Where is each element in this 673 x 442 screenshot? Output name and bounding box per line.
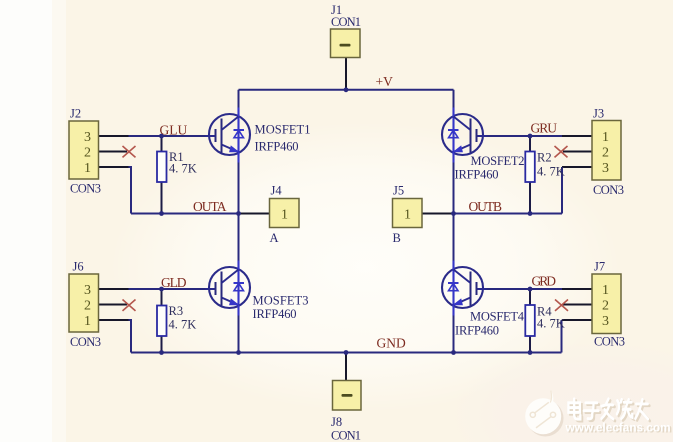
junction R2/OUTB: [528, 211, 533, 216]
connector J8 box: [333, 381, 362, 411]
transistor MOSFET4: [442, 261, 487, 316]
junction R1/OUTA: [159, 211, 164, 216]
svg-text:2: 2: [602, 146, 609, 161]
junction node GLD: [159, 287, 164, 292]
junction node GRD: [528, 287, 533, 292]
svg-text:1: 1: [602, 283, 609, 298]
pin J7-3: [562, 319, 592, 321]
svg-text:J8: J8: [331, 415, 342, 429]
svg-text:2: 2: [84, 146, 91, 161]
pin J7-2: [563, 304, 592, 306]
pin J3-2: [563, 151, 592, 153]
svg-text:CON3: CON3: [70, 335, 101, 349]
pin J6-1: [99, 319, 129, 321]
pin J5-1: [422, 213, 453, 215]
svg-text:GND: GND: [377, 336, 406, 351]
svg-text:3: 3: [602, 314, 609, 329]
pin J3-1: [562, 135, 592, 137]
connector J1 box: [331, 29, 361, 58]
wire GND rail: [131, 352, 562, 354]
svg-text:2: 2: [84, 299, 91, 314]
watermark logo elecfans: [525, 390, 563, 436]
svg-text:1: 1: [602, 130, 609, 145]
svg-text:CON1: CON1: [331, 15, 361, 29]
svg-text:GRU: GRU: [531, 121, 558, 136]
svg-text:J3: J3: [593, 107, 604, 121]
svg-text:1: 1: [281, 208, 288, 223]
svg-text:MOSFET3: MOSFET3: [253, 294, 309, 308]
svg-text:3: 3: [84, 283, 91, 298]
svg-text:1: 1: [84, 314, 91, 329]
svg-text:4. 7K: 4. 7K: [169, 162, 197, 176]
wire GRD to R4: [529, 289, 531, 305]
svg-text:GLD: GLD: [161, 275, 187, 290]
pin label J1 minus: [340, 44, 351, 47]
wire GLU net: [129, 135, 217, 137]
svg-text:J5: J5: [393, 184, 404, 198]
junction J8/GND: [344, 350, 349, 355]
no-connect X at J3 pin2: [555, 146, 568, 157]
svg-text:OUTB: OUTB: [469, 199, 503, 214]
wire right vertical (M2 drain - OUTB - M4 drain - GND): [453, 90, 455, 353]
svg-text:MOSFET4: MOSFET4: [470, 310, 525, 324]
svg-text:2: 2: [602, 299, 609, 314]
svg-text:GRD: GRD: [532, 274, 557, 289]
svg-text:4. 7K: 4. 7K: [537, 165, 565, 179]
pin J8-1: [345, 353, 347, 381]
wire R2 to OUTB: [529, 182, 531, 214]
transistor MOSFET3: [206, 261, 251, 316]
resistor R4: [525, 305, 535, 336]
svg-text:R2: R2: [537, 151, 552, 165]
svg-text:J6: J6: [73, 260, 84, 274]
wire R3 to GND: [161, 336, 163, 353]
svg-text:GLU: GLU: [160, 123, 188, 138]
wire OUTA rail: [131, 213, 239, 215]
wire GLD net: [129, 288, 217, 290]
no-connect X at J6 pin2: [123, 300, 136, 311]
svg-text:CON3: CON3: [594, 335, 625, 349]
wire GRU net: [477, 135, 562, 137]
svg-text:J2: J2: [70, 107, 81, 121]
svg-text:3: 3: [84, 130, 91, 145]
connector J5 box: [393, 199, 423, 228]
no-connect X at J2 pin2: [123, 146, 136, 157]
svg-text:OUTA: OUTA: [193, 199, 227, 214]
svg-text:J4: J4: [271, 184, 283, 198]
svg-text:+V: +V: [376, 74, 394, 89]
pin J6-2: [99, 304, 128, 306]
resistor R2: [525, 152, 535, 183]
svg-text:1: 1: [404, 208, 411, 223]
wire GLU to R1: [161, 136, 163, 152]
svg-text:CON1: CON1: [331, 429, 361, 442]
svg-text:A: A: [270, 231, 279, 245]
junction M3/GND: [236, 350, 241, 355]
transistor MOSFET1: [206, 108, 251, 163]
connector J3 box: [592, 121, 621, 181]
wire GLD to R3: [161, 289, 163, 306]
junction R3/GND: [159, 350, 164, 355]
junction OUTA/M1-M3: [236, 211, 241, 216]
svg-text:4. 7K: 4. 7K: [169, 318, 197, 332]
svg-text:IRFP460: IRFP460: [455, 168, 499, 182]
junction R4/GND: [528, 350, 533, 355]
wire OUTB to J3 pin3: [561, 167, 563, 214]
pin J6-3: [99, 288, 129, 290]
svg-text:CON3: CON3: [593, 183, 624, 197]
pin J1-1: [345, 58, 347, 90]
wire left vertical (M1 drain - OUTA - M3 drain - GND): [238, 90, 240, 353]
svg-text:MOSFET1: MOSFET1: [255, 123, 311, 137]
wire J6 pin1 to GND: [129, 320, 132, 353]
connector J2 box: [69, 121, 99, 179]
wire R4 to GND: [529, 336, 531, 353]
svg-text:www.elecfans.com: www.elecfans.com: [565, 421, 671, 435]
resistor R3: [157, 306, 167, 337]
svg-text:IRFP460: IRFP460: [455, 324, 499, 338]
svg-text:IRFP460: IRFP460: [253, 307, 297, 321]
svg-text:1: 1: [84, 161, 91, 176]
connector J7 box: [592, 274, 621, 334]
pin J2-1: [99, 166, 129, 168]
no-connect X at J7 pin2: [555, 300, 568, 311]
connector J4 box: [270, 199, 300, 228]
wire +V rail: [239, 89, 454, 91]
wire R1 to OUTA: [161, 182, 163, 214]
svg-text:MOSFET2: MOSFET2: [471, 154, 525, 168]
wire GRD net: [477, 288, 562, 290]
svg-text:IRFP460: IRFP460: [255, 140, 299, 154]
pin J2-3: [99, 135, 129, 137]
pin J7-1: [562, 288, 592, 290]
svg-text:R3: R3: [169, 304, 184, 318]
pin J4-1: [239, 213, 270, 215]
transistor MOSFET2: [442, 108, 487, 163]
junction node GRU: [528, 134, 533, 139]
svg-text:CON3: CON3: [70, 182, 101, 196]
pin J3-3: [562, 166, 592, 168]
wire J2 pin1 to OUTA: [129, 167, 132, 214]
wire GND to J7 pin3: [561, 320, 563, 353]
junction M4/GND: [451, 350, 456, 355]
wire OUTB rail: [454, 213, 563, 215]
svg-text:3: 3: [602, 161, 609, 176]
junction node GLU: [159, 134, 164, 139]
svg-text:B: B: [393, 231, 401, 245]
junction at J1/+V: [344, 87, 349, 92]
svg-text:J7: J7: [594, 260, 605, 274]
connector J6 box: [69, 274, 99, 332]
pin label J8 minus: [342, 394, 353, 397]
watermark text 电子发烧友 (drawn strokes): [570, 401, 650, 421]
watermark tint: [450, 341, 673, 442]
resistor R1: [157, 152, 167, 183]
svg-text:4. 7K: 4. 7K: [537, 317, 565, 331]
pin J2-2: [99, 151, 128, 153]
junction OUTB/M2-M4: [451, 211, 456, 216]
wire GRU to R2: [529, 136, 531, 152]
